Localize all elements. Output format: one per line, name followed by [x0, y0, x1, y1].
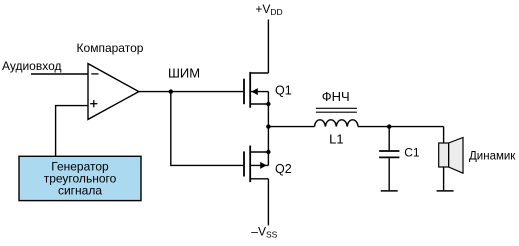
minus sign on inverting input	[91, 73, 98, 75]
wire non-inverting input to generator box	[56, 106, 88, 157]
svg-text:Динамик: Динамик	[469, 150, 516, 162]
junction Q1 source / body dot	[266, 102, 270, 106]
filter bracket double line	[316, 107, 357, 109]
ground bar under speaker	[437, 190, 454, 192]
wire +VDD to Q1 drain	[267, 20, 269, 74]
ground bar under C1	[381, 190, 398, 192]
svg-text:Q2: Q2	[275, 162, 292, 176]
transistor Q1 (p-channel MOSFET)	[244, 72, 268, 108]
wire down to capacitor C1	[388, 127, 390, 151]
svg-text:Компаратор: Компаратор	[77, 41, 144, 55]
wire Q2 source to -VSS	[267, 179, 269, 226]
svg-text:сигнала: сигнала	[58, 184, 102, 198]
wire inductor to speaker	[358, 126, 444, 128]
wire output node to inductor	[268, 126, 314, 128]
wire audio input to comparator inverting input	[31, 73, 88, 75]
transistor Q2 (n-channel MOSFET)	[244, 146, 268, 183]
svg-text:C1: C1	[404, 146, 420, 160]
wire Q1 source to Q2 drain (center node)	[267, 104, 269, 152]
svg-text:ШИМ: ШИМ	[168, 66, 200, 81]
wire capacitor to ground	[388, 158, 390, 191]
junction C1 tap dot	[387, 124, 391, 128]
inductor L1	[315, 120, 359, 127]
speaker (dynamic) body	[449, 138, 463, 174]
node PWM junction dot	[169, 89, 173, 93]
svg-text:L1: L1	[329, 132, 343, 147]
node output junction dot	[266, 124, 270, 128]
capacitor C1 plates	[379, 150, 399, 152]
op-amp U1 comparator triangle	[88, 64, 139, 120]
plus sign on non-inverting input	[90, 103, 97, 105]
svg-text:Аудиовход: Аудиовход	[2, 59, 62, 73]
svg-text:Q1: Q1	[275, 83, 292, 97]
wire comparator output to Q1 gate	[139, 91, 244, 93]
junction Q2 drain / body dot	[266, 150, 270, 154]
wire speaker to ground	[443, 167, 445, 191]
wire to speaker	[443, 127, 445, 143]
generator box (triangle wave generator)	[19, 156, 141, 200]
svg-text:ФНЧ: ФНЧ	[322, 89, 350, 104]
wire PWM node down and right to Q2 gate	[171, 92, 244, 166]
